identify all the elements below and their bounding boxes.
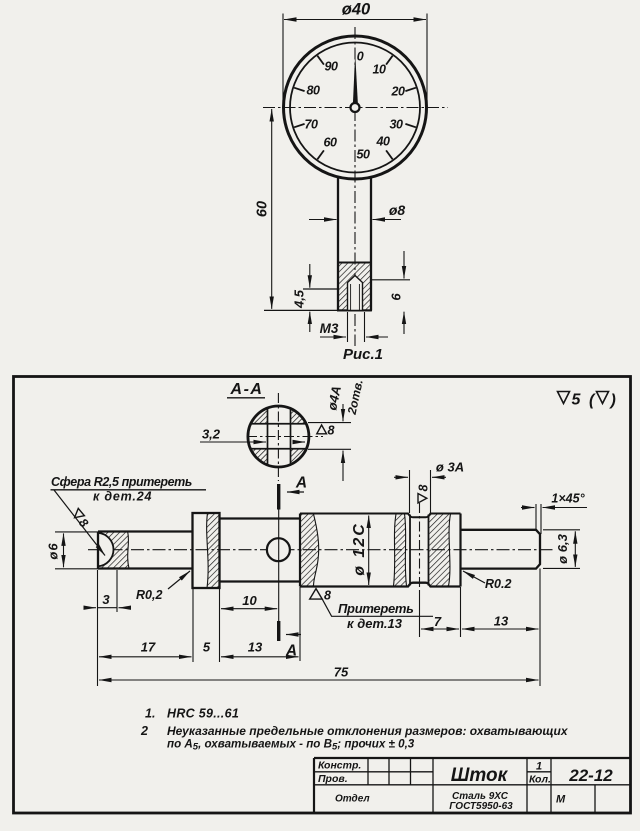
hole flat edges vertical — [267, 408, 269, 466]
svg-text:13: 13 — [248, 640, 263, 655]
svg-text:Отдел: Отдел — [335, 794, 370, 805]
relief groove edges — [409, 515, 411, 586]
title block — [314, 758, 631, 813]
svg-text:М: М — [556, 794, 566, 806]
svg-text:Притереть: Притереть — [338, 601, 414, 616]
dimension 13 left — [221, 656, 299, 658]
dial numbers — [305, 50, 405, 162]
svg-text:13: 13 — [494, 614, 509, 629]
dimension 60 — [271, 109, 273, 309]
svg-text:20: 20 — [391, 85, 405, 99]
svg-text:Пров.: Пров. — [318, 773, 348, 785]
svg-text:Неуказанные предельные отклоне: Неуказанные предельные отклонения размер… — [167, 724, 569, 738]
svg-text:5: 5 — [572, 392, 582, 409]
dimension d6 — [55, 531, 99, 533]
svg-text:): ) — [609, 392, 616, 409]
svg-text:ø 12C: ø 12C — [351, 522, 368, 576]
svg-text:2отв.: 2отв. — [345, 378, 366, 416]
svg-text:ø40: ø40 — [342, 1, 371, 19]
dimension 17 — [99, 656, 192, 658]
svg-text:R0.2: R0.2 — [485, 577, 511, 591]
left journal outline — [97, 532, 99, 569]
svg-text:к дет.24: к дет.24 — [93, 490, 152, 504]
needle — [353, 54, 358, 105]
surface mark t8 below big section — [310, 589, 323, 600]
small hole centerline — [419, 503, 421, 592]
svg-text:к дет.13: к дет.13 — [347, 616, 403, 631]
svg-text:40: 40 — [376, 135, 390, 149]
svg-text:10: 10 — [373, 63, 386, 77]
needle hub — [351, 103, 360, 112]
dimension 3 — [98, 607, 118, 609]
svg-text:60: 60 — [255, 201, 271, 217]
svg-text:8: 8 — [324, 589, 331, 603]
dial inner ring — [290, 43, 420, 173]
svg-text:22-12: 22-12 — [568, 766, 613, 785]
dimension d8 — [309, 219, 337, 221]
svg-text:A-A: A-A — [230, 381, 264, 398]
dimension d12C — [368, 516, 370, 586]
svg-text:Констр.: Констр. — [318, 760, 361, 772]
collar outline — [193, 513, 220, 588]
surface mark t8 at section — [317, 425, 327, 434]
svg-text:8: 8 — [417, 485, 431, 492]
svg-text:ø4A: ø4A — [324, 384, 344, 411]
svg-text:ГОСТ5950-63: ГОСТ5950-63 — [449, 801, 513, 812]
drawing frame — [14, 377, 631, 814]
svg-text:3: 3 — [102, 592, 110, 607]
cross hole edges horizontal — [250, 423, 307, 425]
svg-text:3,2: 3,2 — [202, 427, 221, 442]
extension lines below shaft — [98, 510, 541, 687]
surface mark t8 rotated on leader — [69, 507, 91, 530]
svg-text:80: 80 — [307, 84, 320, 98]
dimension 3,2 — [200, 441, 266, 443]
shaft horizontal centerline — [88, 549, 553, 551]
svg-text:Шток: Шток — [451, 765, 509, 786]
thread depth reference lines — [303, 288, 338, 290]
svg-text:1: 1 — [536, 761, 542, 773]
big section hatched zones — [301, 514, 319, 586]
right journal outline with chamfer — [461, 530, 541, 569]
svg-text:по A5, охватываемых - по B5; п: по A5, охватываемых - по B5; прочих ± 0,… — [167, 738, 415, 753]
svg-text:R0,2: R0,2 — [136, 588, 162, 602]
svg-text:50: 50 — [357, 148, 370, 162]
svg-text:10: 10 — [242, 593, 257, 608]
svg-text:ø 6,3: ø 6,3 — [555, 533, 570, 563]
svg-text:0: 0 — [357, 50, 364, 64]
section A-A circle hatched — [248, 407, 308, 467]
svg-text:30: 30 — [390, 118, 403, 132]
surface finish mark del5 (del) top right — [558, 392, 609, 404]
leader lap to part 13 — [322, 599, 433, 616]
section plane mark A upper — [277, 484, 280, 510]
svg-text:HRC 59...61: HRC 59...61 — [167, 707, 239, 721]
left journal hatched zone — [98, 532, 129, 569]
surface mark t8 rotated at hole — [417, 485, 431, 504]
dimension 10 — [221, 608, 277, 610]
collar hatched zone — [207, 513, 220, 588]
dimension 13 right — [462, 628, 539, 630]
dimension d40 extension lines — [282, 14, 284, 108]
M3 hole — [348, 276, 363, 311]
dimension M3 — [347, 312, 349, 342]
sphere leader arrow — [54, 490, 105, 556]
svg-text:6: 6 — [389, 293, 404, 301]
notes — [140, 707, 569, 753]
big section outline — [299, 514, 301, 587]
dimension d40 — [284, 19, 426, 21]
section circle centerlines — [277, 393, 279, 481]
svg-text:7: 7 — [434, 614, 442, 629]
svg-text:90: 90 — [325, 60, 338, 74]
svg-text:ø 3A: ø 3A — [436, 460, 464, 475]
dimension 6 — [403, 251, 405, 279]
cross hole circle — [267, 538, 290, 561]
svg-text:5: 5 — [203, 640, 211, 655]
dimension d4A 2 holes — [308, 422, 351, 424]
dial ticks — [294, 56, 416, 160]
svg-text:ø8: ø8 — [389, 202, 406, 218]
dimension d3A — [409, 470, 411, 513]
dimension 75 — [99, 679, 539, 681]
dial outer circle — [284, 36, 427, 179]
svg-text:Рис.1: Рис.1 — [343, 346, 383, 363]
svg-text:ø6: ø6 — [46, 542, 61, 559]
dimension 4,5 — [309, 264, 311, 288]
svg-text:2: 2 — [140, 724, 148, 738]
svg-text:1.: 1. — [145, 707, 155, 721]
svg-text:75: 75 — [334, 665, 349, 680]
section plane mark A lower — [277, 621, 280, 641]
svg-text:8: 8 — [328, 424, 335, 438]
dial vertical centerline — [354, 27, 356, 346]
middle section outline — [220, 517, 301, 519]
stem — [337, 178, 339, 311]
svg-text:A: A — [295, 475, 307, 492]
svg-text:60: 60 — [324, 136, 337, 150]
big section right face — [459, 514, 461, 587]
dimension 7 — [421, 628, 459, 630]
svg-text:70: 70 — [305, 118, 318, 132]
svg-text:(: ( — [589, 392, 596, 409]
svg-text:4,5: 4,5 — [292, 289, 307, 309]
dial horizontal centerline — [263, 107, 448, 109]
sphere end dome — [98, 533, 114, 567]
svg-text:Сфера R2,5 притереть: Сфера R2,5 притереть — [51, 475, 192, 489]
svg-text:17: 17 — [141, 640, 156, 655]
svg-text:Кол.: Кол. — [529, 774, 551, 786]
svg-text:1×45°: 1×45° — [551, 492, 585, 506]
svg-text:M3: M3 — [320, 321, 339, 336]
stem bottom edge — [264, 309, 338, 311]
dimension d6,3 — [543, 529, 580, 531]
threaded bush hatched — [338, 263, 371, 311]
